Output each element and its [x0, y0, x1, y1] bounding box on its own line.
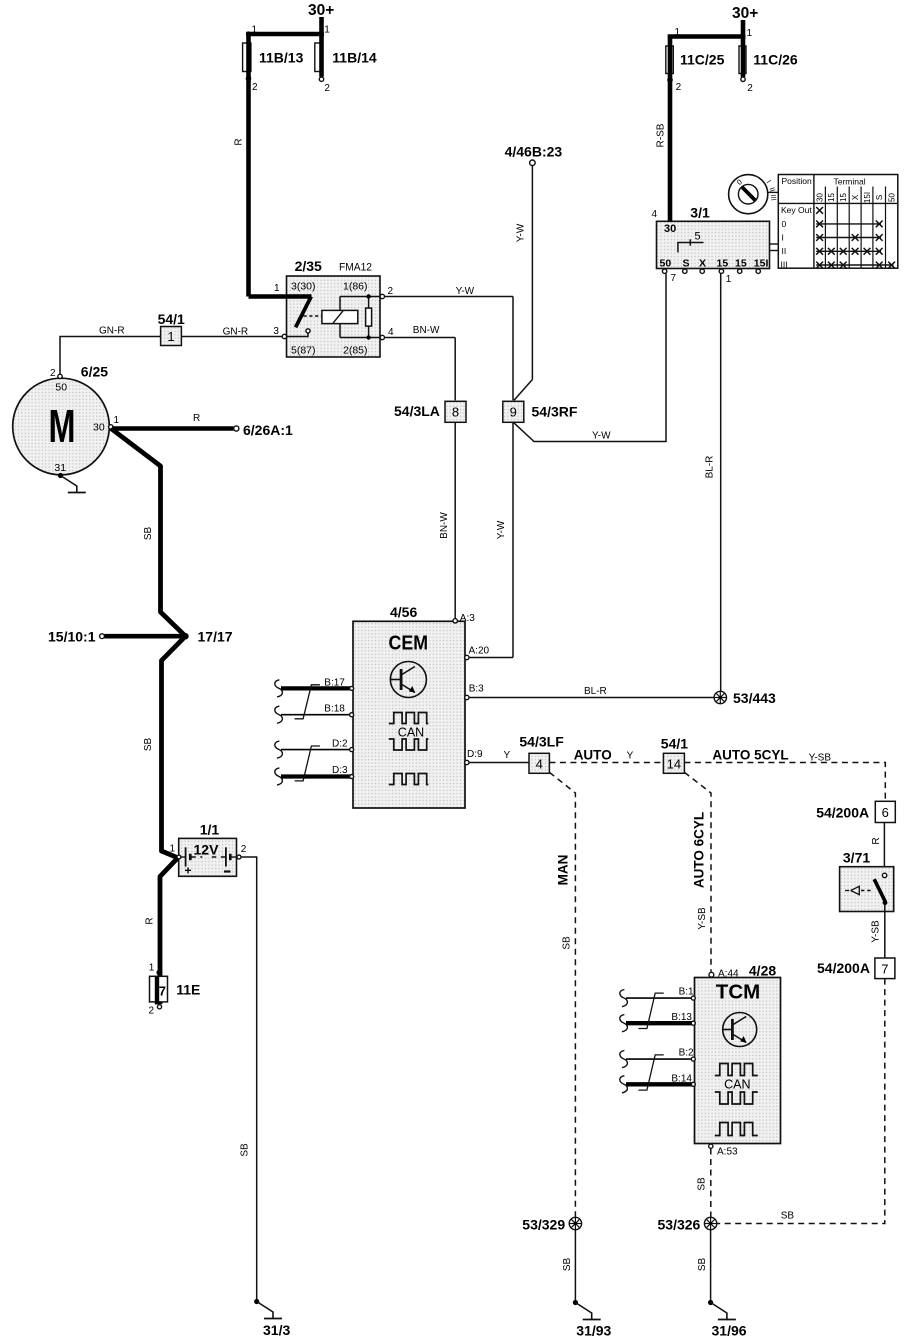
- svg-text:B:2: B:2: [679, 1048, 694, 1059]
- svg-text:4/46B:23: 4/46B:23: [505, 144, 563, 160]
- svg-text:R: R: [145, 917, 156, 924]
- svg-text:54/200A: 54/200A: [817, 960, 870, 976]
- svg-text:TCM: TCM: [716, 981, 760, 1004]
- svg-text:15: 15: [839, 193, 848, 202]
- svg-text:A:53: A:53: [717, 1147, 738, 1158]
- svg-text:11B/14: 11B/14: [332, 50, 377, 66]
- svg-text:+: +: [185, 864, 192, 878]
- svg-text:S: S: [875, 195, 884, 200]
- svg-text:SB: SB: [697, 1258, 708, 1272]
- svg-text:A:3: A:3: [460, 613, 475, 624]
- svg-text:SB: SB: [562, 936, 573, 950]
- svg-text:53/329: 53/329: [522, 1217, 565, 1233]
- svg-text:II: II: [782, 246, 787, 256]
- svg-text:Y-W: Y-W: [592, 431, 611, 442]
- svg-text:GN-R: GN-R: [223, 327, 249, 338]
- svg-text:15: 15: [827, 193, 836, 202]
- svg-text:3/1: 3/1: [690, 205, 710, 221]
- svg-text:2: 2: [252, 82, 258, 93]
- svg-text:30: 30: [664, 223, 676, 235]
- svg-text:B:1: B:1: [679, 987, 694, 998]
- svg-text:3: 3: [273, 326, 279, 337]
- svg-text:I: I: [782, 232, 784, 242]
- svg-text:1: 1: [675, 27, 681, 38]
- svg-text:30+: 30+: [308, 2, 334, 19]
- svg-text:53/443: 53/443: [733, 690, 776, 706]
- svg-text:30+: 30+: [732, 5, 758, 22]
- svg-text:15/10:1: 15/10:1: [48, 629, 96, 645]
- svg-text:6/26A:1: 6/26A:1: [243, 422, 293, 438]
- svg-text:GN-R: GN-R: [99, 326, 125, 337]
- svg-text:5: 5: [695, 231, 701, 243]
- svg-text:D:9: D:9: [467, 749, 483, 760]
- svg-text:30: 30: [815, 193, 824, 202]
- svg-text:3(30): 3(30): [291, 281, 316, 293]
- svg-text:54/3RF: 54/3RF: [532, 404, 578, 420]
- svg-text:SB: SB: [240, 1143, 251, 1157]
- svg-text:8: 8: [452, 405, 459, 420]
- svg-text:30: 30: [93, 422, 105, 434]
- svg-text:50: 50: [660, 257, 672, 269]
- svg-text:11C/25: 11C/25: [680, 52, 725, 68]
- svg-text:MAN: MAN: [556, 855, 571, 886]
- svg-text:R: R: [193, 413, 200, 424]
- svg-text:CAN: CAN: [398, 726, 424, 740]
- svg-text:M: M: [49, 400, 76, 452]
- svg-text:2: 2: [676, 82, 682, 93]
- svg-text:Position: Position: [782, 176, 813, 186]
- svg-text:Y-SB: Y-SB: [870, 920, 881, 943]
- svg-text:54/1: 54/1: [661, 736, 688, 752]
- svg-text:4: 4: [536, 756, 543, 771]
- svg-text:1: 1: [726, 274, 732, 285]
- svg-text:2(85): 2(85): [343, 345, 368, 357]
- svg-text:1: 1: [252, 25, 258, 36]
- svg-text:17/17: 17/17: [198, 629, 233, 645]
- svg-text:31/3: 31/3: [263, 1322, 290, 1338]
- svg-text:CAN: CAN: [724, 1077, 750, 1091]
- svg-text:15: 15: [735, 257, 747, 269]
- svg-text:A:20: A:20: [469, 646, 490, 657]
- svg-text:3/71: 3/71: [843, 850, 870, 866]
- svg-text:FMA12: FMA12: [339, 262, 372, 274]
- svg-text:7: 7: [159, 984, 166, 999]
- svg-text:Y: Y: [504, 750, 511, 761]
- svg-text:Terminal: Terminal: [834, 177, 866, 187]
- svg-text:B:14: B:14: [671, 1074, 692, 1085]
- svg-text:4/28: 4/28: [749, 963, 776, 979]
- svg-text:III: III: [769, 194, 779, 201]
- svg-text:1(86): 1(86): [343, 281, 368, 293]
- svg-text:4/56: 4/56: [390, 604, 417, 620]
- svg-text:6/25: 6/25: [81, 364, 108, 380]
- svg-text:SB: SB: [143, 738, 154, 752]
- svg-text:1: 1: [149, 963, 155, 974]
- svg-text:11B/13: 11B/13: [259, 50, 304, 66]
- svg-text:SB: SB: [781, 1211, 795, 1222]
- svg-text:Y: Y: [627, 751, 634, 762]
- svg-text:31/93: 31/93: [576, 1323, 611, 1339]
- svg-text:2: 2: [50, 368, 56, 379]
- svg-text:B:13: B:13: [671, 1012, 692, 1023]
- svg-text:X: X: [851, 194, 860, 200]
- svg-text:1: 1: [167, 329, 174, 344]
- svg-text:54/200A: 54/200A: [816, 804, 869, 820]
- svg-text:2/35: 2/35: [295, 258, 322, 274]
- svg-text:7: 7: [881, 962, 888, 977]
- svg-text:CEM: CEM: [389, 632, 429, 655]
- svg-text:BL-R: BL-R: [584, 686, 607, 697]
- svg-text:Y-W: Y-W: [456, 286, 475, 297]
- svg-text:2: 2: [149, 1006, 155, 1017]
- svg-text:AUTO 6CYL: AUTO 6CYL: [691, 812, 706, 888]
- svg-text:50: 50: [887, 193, 896, 202]
- svg-text:4: 4: [388, 327, 394, 338]
- svg-text:AUTO 5CYL: AUTO 5CYL: [712, 748, 788, 763]
- svg-text:BN-W: BN-W: [413, 325, 440, 336]
- svg-text:SB: SB: [697, 1177, 708, 1191]
- svg-text:S: S: [683, 257, 690, 269]
- svg-text:15I: 15I: [754, 257, 769, 269]
- svg-text:1: 1: [114, 415, 120, 426]
- svg-text:31/96: 31/96: [712, 1323, 747, 1339]
- svg-text:15: 15: [717, 257, 729, 269]
- svg-text:54/3LF: 54/3LF: [519, 734, 564, 750]
- svg-text:2: 2: [241, 844, 247, 855]
- svg-text:1: 1: [170, 844, 176, 855]
- svg-text:B:18: B:18: [324, 704, 345, 715]
- svg-text:III: III: [781, 259, 788, 269]
- svg-text:AUTO: AUTO: [574, 748, 612, 763]
- svg-text:14: 14: [667, 756, 681, 771]
- svg-text:D:2: D:2: [332, 739, 348, 750]
- svg-text:Y-SB: Y-SB: [697, 907, 708, 930]
- svg-text:0: 0: [782, 219, 787, 229]
- svg-text:11E: 11E: [176, 982, 200, 998]
- svg-text:B:17: B:17: [324, 678, 345, 689]
- svg-text:53/326: 53/326: [658, 1217, 701, 1233]
- svg-text:SB: SB: [562, 1258, 573, 1272]
- svg-text:Key Out: Key Out: [781, 205, 812, 215]
- svg-text:1/1: 1/1: [200, 822, 220, 838]
- svg-text:5(87): 5(87): [291, 345, 316, 357]
- svg-text:1: 1: [324, 25, 330, 36]
- svg-text:54/3LA: 54/3LA: [394, 403, 440, 419]
- svg-text:B:3: B:3: [469, 684, 484, 695]
- svg-text:R: R: [871, 837, 882, 844]
- svg-text:R-SB: R-SB: [656, 123, 667, 147]
- svg-text:SB: SB: [143, 527, 154, 541]
- svg-text:12V: 12V: [194, 842, 220, 858]
- svg-text:50: 50: [55, 382, 67, 394]
- svg-text:1: 1: [747, 28, 753, 39]
- svg-text:BL-R: BL-R: [705, 456, 716, 479]
- svg-text:31: 31: [54, 462, 66, 474]
- svg-text:2: 2: [747, 83, 753, 94]
- svg-text:Y-W: Y-W: [496, 520, 507, 539]
- svg-text:15I: 15I: [863, 192, 872, 203]
- svg-text:9: 9: [510, 405, 517, 420]
- svg-text:X: X: [699, 257, 706, 269]
- svg-text:2: 2: [388, 286, 394, 297]
- svg-text:R: R: [233, 138, 244, 145]
- svg-text:6: 6: [882, 805, 889, 820]
- svg-text:11C/26: 11C/26: [753, 52, 798, 68]
- svg-text:Y-W: Y-W: [516, 223, 527, 242]
- svg-text:2: 2: [324, 83, 330, 94]
- svg-text:1: 1: [274, 283, 280, 294]
- svg-text:BN-W: BN-W: [439, 512, 450, 539]
- svg-text:4: 4: [652, 209, 658, 220]
- svg-text:54/1: 54/1: [158, 311, 185, 327]
- svg-text:D:3: D:3: [332, 765, 348, 776]
- svg-text:Y-SB: Y-SB: [809, 753, 832, 764]
- svg-text:7: 7: [671, 273, 677, 284]
